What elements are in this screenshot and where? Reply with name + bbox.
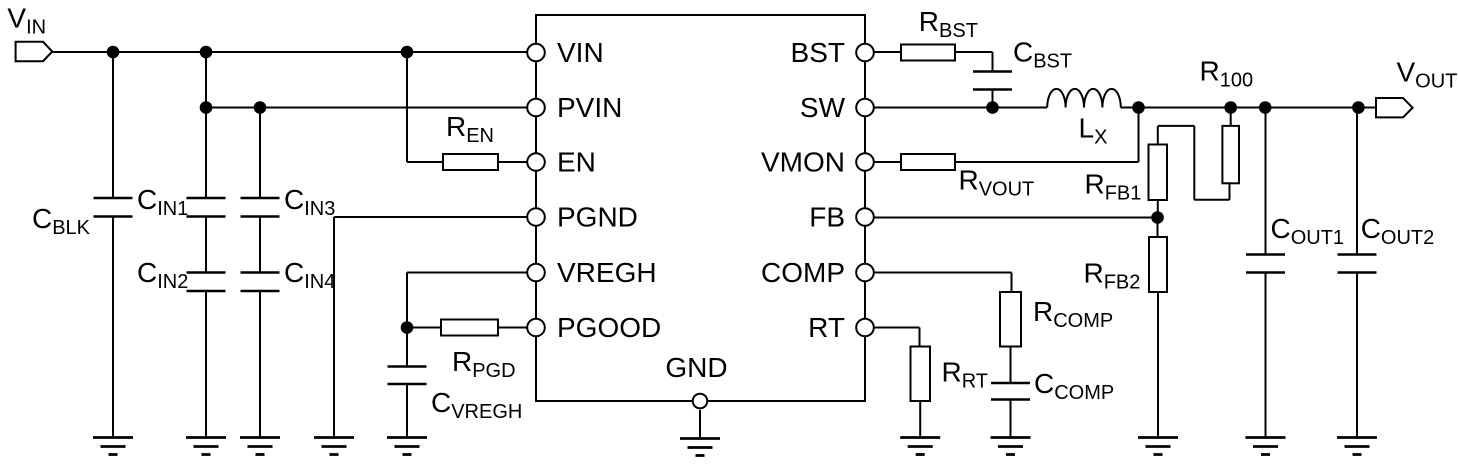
svg-text:R: R	[452, 346, 472, 377]
wire CVREGH bottom	[406, 384, 408, 438]
wire PVIN rail	[206, 107, 527, 109]
wire CIN3-CIN4	[259, 217, 261, 273]
svg-text:IN3: IN3	[304, 198, 335, 220]
capacitor COUT2	[1338, 255, 1377, 273]
svg-text:FB: FB	[809, 202, 845, 233]
resistor RPGD	[441, 320, 498, 336]
resistor RFB2	[1149, 237, 1167, 292]
pin GND	[665, 352, 727, 408]
ground PGND	[314, 438, 354, 455]
capacitor CBLK	[94, 198, 133, 217]
label R100	[1200, 56, 1254, 92]
svg-text:BST: BST	[791, 37, 845, 68]
label CBST	[1013, 37, 1072, 73]
pin PGOOD	[527, 312, 661, 343]
svg-text:100: 100	[1220, 70, 1253, 92]
capacitor COUT1	[1246, 255, 1285, 273]
capacitor CIN3	[241, 198, 280, 217]
wire COUT1 top	[1265, 108, 1267, 255]
ground RFB2	[1138, 438, 1178, 455]
svg-text:EN: EN	[557, 147, 596, 178]
svg-text:C: C	[284, 184, 304, 215]
ground GND pin	[680, 439, 720, 456]
node R100 top	[1224, 101, 1237, 114]
pin COMP	[761, 257, 874, 288]
wire VREGH	[407, 273, 527, 328]
wire RPGD to node	[407, 327, 441, 329]
pin VREGH	[527, 257, 656, 288]
label VOUT port	[1397, 57, 1458, 93]
pin VIN	[527, 37, 603, 68]
ground COUT1	[1246, 438, 1286, 455]
label COUT2	[1361, 213, 1435, 249]
wire CCOMP bottom	[1010, 400, 1012, 438]
svg-text:C: C	[284, 257, 304, 288]
wire CBST down	[992, 90, 994, 108]
node A1	[107, 46, 120, 59]
svg-text:C: C	[431, 387, 451, 418]
wire RT	[874, 328, 920, 348]
svg-text:COMP: COMP	[761, 257, 845, 288]
svg-text:IN2: IN2	[157, 271, 188, 293]
svg-text:PGND: PGND	[557, 202, 638, 233]
svg-text:COMP: COMP	[1054, 382, 1114, 404]
node COUT2 top	[1352, 101, 1365, 114]
resistor REN	[443, 154, 498, 170]
svg-text:VOUT: VOUT	[979, 179, 1035, 201]
svg-text:VREGH: VREGH	[557, 257, 657, 288]
label CVREGH	[431, 387, 522, 423]
svg-text:RT: RT	[962, 371, 988, 393]
capacitor CBST	[973, 72, 1012, 90]
wire RFB1 bottom	[1157, 200, 1159, 218]
label COUT1	[1271, 213, 1345, 249]
resistor R100	[1222, 126, 1239, 183]
wire COMP	[874, 273, 1012, 293]
svg-text:C: C	[1034, 368, 1054, 399]
label RCOMP	[1033, 296, 1113, 332]
svg-text:VIN: VIN	[557, 37, 604, 68]
svg-text:R: R	[1084, 258, 1104, 289]
ground CIN4	[240, 438, 280, 455]
wire COUT2 bottom	[1356, 273, 1358, 438]
wire out rail	[1139, 107, 1377, 109]
wire REN to pin	[498, 161, 527, 163]
wire CIN1 top	[205, 108, 207, 199]
svg-text:C: C	[1271, 213, 1291, 244]
wire COUT2 top	[1356, 108, 1358, 255]
wire RBST to CBST	[955, 52, 993, 72]
wire COUT1 bottom	[1265, 273, 1267, 438]
svg-text:V: V	[7, 3, 26, 34]
wire RFB1 top route	[1158, 126, 1230, 200]
svg-text:OUT1: OUT1	[1291, 227, 1344, 249]
wire SW rail	[874, 107, 1047, 109]
svg-text:R: R	[942, 357, 962, 388]
svg-text:R: R	[959, 165, 979, 196]
svg-text:R: R	[919, 6, 939, 37]
node B2	[254, 101, 267, 114]
svg-text:PGD: PGD	[472, 360, 515, 382]
svg-text:VREGH: VREGH	[451, 401, 522, 423]
svg-text:FB2: FB2	[1104, 272, 1141, 294]
wire FB	[874, 217, 1158, 219]
label RFB1	[1085, 169, 1142, 205]
wire CBLK bottom	[112, 217, 114, 438]
wire RFB2 top	[1157, 218, 1159, 238]
capacitor CCOMP	[991, 383, 1030, 400]
svg-text:PGOOD: PGOOD	[557, 312, 661, 343]
svg-text:C: C	[137, 257, 157, 288]
capacitor CVREGH	[388, 367, 427, 385]
svg-text:IN1: IN1	[157, 198, 188, 220]
svg-text:IN: IN	[26, 17, 46, 39]
label VIN port	[7, 3, 46, 39]
label REN	[446, 111, 494, 147]
label RBST	[919, 6, 978, 42]
resistor RRT	[911, 347, 931, 402]
label LX	[1079, 113, 1108, 149]
svg-text:OUT2: OUT2	[1381, 227, 1434, 249]
ground RRT	[900, 438, 940, 455]
svg-text:GND: GND	[665, 352, 727, 383]
node EN tap	[401, 46, 414, 59]
svg-text:R: R	[446, 111, 466, 142]
wire A2 down	[205, 52, 207, 108]
resistor RCOMP	[1000, 292, 1021, 347]
capacitor CIN4	[241, 273, 280, 292]
label CBLK	[32, 203, 91, 239]
node PGOOD-CVREGH	[401, 321, 414, 334]
pin BST	[791, 37, 874, 68]
capacitor CIN2	[187, 273, 226, 292]
svg-text:C: C	[137, 184, 157, 215]
label RVOUT	[959, 165, 1035, 201]
label RRT	[942, 357, 989, 393]
pin FB	[809, 202, 874, 233]
resistor RVOUT	[901, 154, 955, 170]
wire VIN rail	[52, 51, 527, 53]
node B1	[200, 101, 213, 114]
svg-text:COMP: COMP	[1053, 310, 1113, 332]
wire GND pin down	[699, 410, 701, 439]
wire CIN2 bottom	[205, 291, 207, 438]
node A2	[200, 46, 213, 59]
wire PGND	[334, 217, 527, 438]
wire VMON to RVOUT	[874, 161, 901, 163]
ground CBLK	[93, 438, 133, 455]
node COUT1 top	[1259, 101, 1272, 114]
pin PVIN	[527, 92, 622, 123]
IC body U1	[536, 15, 865, 401]
svg-text:SW: SW	[800, 92, 846, 123]
svg-text:FB1: FB1	[1105, 183, 1142, 205]
capacitor CIN1	[187, 198, 226, 217]
svg-text:EN: EN	[466, 125, 494, 147]
svg-text:V: V	[1397, 57, 1416, 88]
pin EN	[527, 147, 596, 178]
port VIN input	[16, 42, 53, 61]
label CIN4	[284, 257, 335, 293]
node CBST-SW	[986, 101, 999, 114]
wire EN to REN	[407, 161, 443, 163]
svg-text:BST: BST	[939, 20, 978, 42]
node SWOUT	[1132, 101, 1145, 114]
wire CBLK top	[112, 52, 114, 198]
svg-text:C: C	[1361, 213, 1381, 244]
wire RFB2 bottom	[1157, 292, 1159, 438]
svg-text:PVIN: PVIN	[557, 92, 622, 123]
svg-text:X: X	[1094, 127, 1107, 149]
pin SW	[800, 92, 874, 123]
svg-text:R: R	[1085, 169, 1105, 200]
wire PGOOD to RPGD	[498, 327, 527, 329]
wire BST to RBST	[874, 51, 901, 53]
svg-text:VMON: VMON	[761, 147, 845, 178]
svg-text:R: R	[1033, 296, 1053, 327]
svg-text:C: C	[1013, 37, 1033, 68]
svg-text:L: L	[1079, 113, 1095, 144]
svg-text:RT: RT	[808, 312, 845, 343]
inductor LX	[1047, 89, 1121, 108]
ground CIN2	[186, 438, 226, 455]
ground CVREGH	[387, 438, 427, 455]
node FB	[1151, 211, 1164, 224]
resistor RFB1	[1149, 145, 1168, 201]
wire RVOUT to SWOUT	[955, 108, 1139, 163]
label CIN1	[137, 184, 188, 220]
label CIN3	[284, 184, 335, 220]
wire CIN3 top	[259, 108, 261, 199]
wire CIN1-CIN2	[205, 217, 207, 273]
wire RCOMP to CCOMP	[1010, 347, 1012, 383]
label RPGD	[452, 346, 516, 382]
ground CCOMP	[991, 438, 1031, 455]
svg-text:BST: BST	[1033, 51, 1072, 73]
label CCOMP	[1034, 368, 1114, 404]
pin VMON	[761, 147, 874, 178]
svg-text:BLK: BLK	[52, 217, 90, 239]
wire R100 top	[1230, 108, 1232, 126]
wire LX to node	[1121, 107, 1139, 109]
resistor RBST	[901, 45, 955, 61]
svg-text:IN4: IN4	[304, 271, 335, 293]
pin RT	[808, 312, 874, 343]
wire RRT bottom	[919, 401, 921, 438]
wire EN vertical	[406, 52, 408, 162]
wire CIN4 bottom	[259, 291, 261, 438]
ground COUT2	[1337, 438, 1377, 455]
svg-text:C: C	[32, 203, 52, 234]
port VOUT output	[1376, 98, 1413, 117]
label RFB2	[1084, 258, 1141, 294]
pin PGND	[527, 202, 638, 233]
label CIN2	[137, 257, 188, 293]
svg-text:OUT: OUT	[1415, 71, 1457, 93]
wire CVREGH top	[406, 328, 408, 367]
svg-text:R: R	[1200, 56, 1220, 87]
